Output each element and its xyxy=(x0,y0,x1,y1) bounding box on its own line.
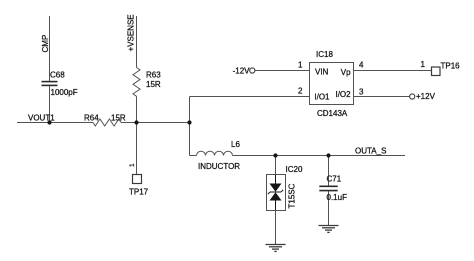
diode D1 TVS in IC20 xyxy=(270,184,282,201)
svg-text:T15SC: T15SC xyxy=(288,183,297,208)
op-amp U1 IC18 box xyxy=(310,63,354,105)
svg-text:15R: 15R xyxy=(111,114,126,123)
svg-text:0.1uF: 0.1uF xyxy=(327,193,348,202)
svg-text:1: 1 xyxy=(298,61,303,70)
svg-text:2: 2 xyxy=(298,87,303,96)
svg-text:IC20: IC20 xyxy=(286,165,303,174)
svg-text:CMP: CMP xyxy=(41,35,50,53)
wire pin4 to TP16 xyxy=(354,70,432,72)
wire CMP vertical top xyxy=(49,16,51,81)
svg-text:1: 1 xyxy=(129,163,136,167)
capacitor C71 xyxy=(319,186,337,190)
svg-text:L6: L6 xyxy=(231,140,240,149)
wire R63 to VOUT1 net xyxy=(136,96,138,122)
wire down to TP17 xyxy=(136,123,138,175)
node junction OUTA_S-IC20 xyxy=(273,153,277,157)
svg-text:CD143A: CD143A xyxy=(317,109,348,118)
svg-text:VIN: VIN xyxy=(315,67,329,76)
node junction VOUT1-pin2 xyxy=(187,120,191,124)
wire inductor lead left xyxy=(190,155,197,157)
resistor R63 xyxy=(133,68,140,97)
svg-text:C68: C68 xyxy=(50,71,65,80)
svg-text:VOUT1: VOUT1 xyxy=(28,114,55,123)
terminal -12V circle xyxy=(250,68,255,73)
wire IC20 branch down xyxy=(275,156,277,176)
svg-text:IC18: IC18 xyxy=(316,50,333,59)
testpoint TP17 square xyxy=(133,175,142,184)
svg-text:+12V: +12V xyxy=(416,92,436,101)
wire pin2 horizontal to IC18 xyxy=(190,96,310,98)
transistor Q1 IC20 box xyxy=(267,175,286,211)
node junction VOUT1-R63 xyxy=(134,120,138,124)
ground C71 xyxy=(319,226,339,233)
svg-text:+VSENSE: +VSENSE xyxy=(127,14,136,51)
svg-text:3: 3 xyxy=(359,88,364,97)
svg-text:TP16: TP16 xyxy=(441,62,461,71)
svg-text:R64: R64 xyxy=(84,114,99,123)
wire pin2 branch vertical xyxy=(189,97,191,156)
node junction OUTA_S-C71 xyxy=(326,153,330,157)
diode D1 zener bars xyxy=(268,175,283,210)
wire CMP vertical below C68 xyxy=(49,86,51,123)
wire C71 branch down xyxy=(328,156,330,187)
testpoint TP16 square xyxy=(432,67,441,76)
inductor L6 xyxy=(197,151,233,155)
svg-text:I/O2: I/O2 xyxy=(335,90,351,99)
node junction VOUT1-CMP xyxy=(47,120,51,124)
svg-text:TP17: TP17 xyxy=(129,188,149,197)
svg-text:Vp: Vp xyxy=(341,68,351,77)
svg-text:C71: C71 xyxy=(327,175,342,184)
svg-text:1: 1 xyxy=(421,60,426,69)
svg-text:I/O1: I/O1 xyxy=(314,93,330,102)
ground IC20 xyxy=(266,245,286,252)
terminal +12V circle xyxy=(410,94,415,99)
svg-text:1000pF: 1000pF xyxy=(51,88,78,97)
svg-text:R63: R63 xyxy=(146,71,161,80)
capacitor C68 xyxy=(42,82,58,86)
svg-text:15R: 15R xyxy=(146,80,161,89)
wire VOUT1 horizontal left xyxy=(17,122,93,124)
wire +VSENSE vertical top xyxy=(136,16,138,68)
wire -12V to pin1 xyxy=(255,70,310,72)
wire OUTA_S horizontal xyxy=(233,155,406,157)
wire IC20 to ground xyxy=(275,210,277,244)
wire C71 to ground xyxy=(328,191,330,225)
wire VOUT1 horizontal right xyxy=(121,122,190,124)
wire pin3 to +12V xyxy=(354,96,410,98)
svg-text:4: 4 xyxy=(359,61,364,70)
svg-text:INDUCTOR: INDUCTOR xyxy=(198,162,240,171)
svg-text:OUTA_S: OUTA_S xyxy=(355,147,386,156)
resistor R64 xyxy=(93,119,121,126)
svg-text:-12V: -12V xyxy=(233,67,251,76)
